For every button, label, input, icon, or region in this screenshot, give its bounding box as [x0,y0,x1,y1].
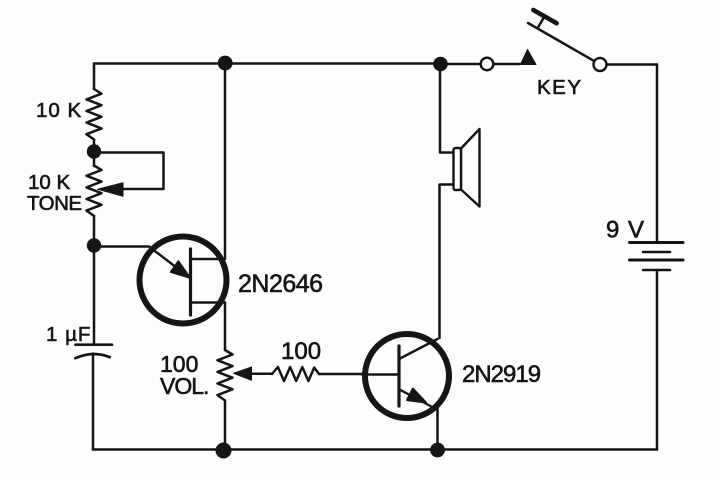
svg-text:KEY: KEY [537,76,583,99]
svg-text:100: 100 [281,338,321,365]
svg-text:10 K: 10 K [28,171,70,194]
svg-text:1 µF: 1 µF [46,323,91,346]
svg-text:2N2646: 2N2646 [238,270,323,298]
svg-text:VOL.: VOL. [160,373,208,399]
svg-text:2N2919: 2N2919 [462,361,541,388]
svg-text:9 V: 9 V [606,217,645,244]
svg-text:10 K: 10 K [36,99,82,122]
svg-text:TONE: TONE [27,192,82,215]
